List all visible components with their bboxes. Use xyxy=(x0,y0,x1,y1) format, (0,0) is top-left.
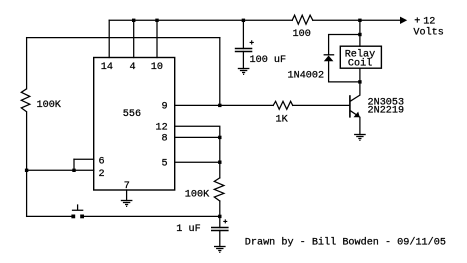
wire feedback vertical to pin9 xyxy=(219,38,221,106)
svg-text:4: 4 xyxy=(130,62,136,73)
wire feedback horizontal xyxy=(27,37,220,39)
transistor Q1 emitter diagonal xyxy=(350,111,359,117)
wire diode top branch xyxy=(329,35,360,55)
capacitor C2 1uF plates xyxy=(211,228,229,231)
svg-text:Volts: Volts xyxy=(413,27,443,39)
node diode top xyxy=(358,33,361,36)
node pin4 bus xyxy=(132,19,135,22)
wire 100uF cap top xyxy=(242,20,244,48)
svg-text:100 uF: 100 uF xyxy=(250,55,287,66)
wire pin6-pin2 step xyxy=(73,159,75,170)
svg-text:12: 12 xyxy=(423,17,435,28)
svg-text:Coil: Coil xyxy=(348,57,372,69)
svg-text:8: 8 xyxy=(162,134,168,145)
svg-text:100K: 100K xyxy=(37,100,62,111)
diode D1 1N4002 xyxy=(324,54,335,56)
svg-text:556: 556 xyxy=(123,109,141,120)
transistor Q1 collector diagonal xyxy=(350,95,360,101)
node diode bottom xyxy=(358,80,361,83)
ground 1uF xyxy=(214,247,226,253)
wire emitter to ground xyxy=(359,117,361,134)
wire relay bottom to collector xyxy=(359,68,361,95)
svg-text:12: 12 xyxy=(156,123,168,134)
push button S1 contacts xyxy=(71,215,75,219)
capacitor C1 plus sign xyxy=(250,40,254,44)
IC U1 556 box xyxy=(94,58,175,191)
wire base xyxy=(293,104,350,106)
ground pin7 xyxy=(121,201,133,207)
node pin9 feedback xyxy=(218,104,221,107)
svg-text:+: + xyxy=(414,17,420,28)
wire supply arrow line xyxy=(360,19,400,21)
wire pin6 xyxy=(74,158,94,160)
svg-text:1N4002: 1N4002 xyxy=(288,71,325,82)
wire bottom right of switch xyxy=(84,215,220,217)
svg-text:1K: 1K xyxy=(276,114,289,125)
wire pin4 vertical xyxy=(133,20,135,57)
svg-text:1 uF: 1 uF xyxy=(176,224,200,235)
svg-text:2: 2 xyxy=(99,169,105,180)
wire bottom left xyxy=(27,215,72,217)
resistor R3 100K right xyxy=(214,178,224,201)
resistor R2 100 ohm xyxy=(292,15,313,24)
svg-text:100: 100 xyxy=(293,29,311,40)
wire left loop vertical lower xyxy=(26,112,28,217)
svg-text:5: 5 xyxy=(162,158,168,169)
node pin2 left xyxy=(25,169,28,172)
svg-text:14: 14 xyxy=(101,62,113,73)
wire pin14 vertical xyxy=(108,20,110,57)
svg-text:2N2219: 2N2219 xyxy=(368,105,405,116)
wire pin2 xyxy=(27,169,94,171)
wire pin9 xyxy=(175,104,274,106)
transistor Q1 base bar xyxy=(349,95,351,117)
wire pin12 xyxy=(175,126,220,178)
wire pin7 stem xyxy=(126,190,128,201)
svg-text:10: 10 xyxy=(151,62,163,73)
push button S1 actuator xyxy=(72,204,83,210)
supply arrow head xyxy=(400,17,407,24)
wire pin5 xyxy=(175,161,220,163)
wire diode bottom branch xyxy=(329,61,360,82)
node 100uF bus xyxy=(242,19,245,22)
wire cap C2 to ground xyxy=(219,231,221,247)
node pin10 bus xyxy=(155,19,158,22)
svg-text:9: 9 xyxy=(162,101,168,112)
wire 100uF cap bottom xyxy=(242,52,244,69)
relay box xyxy=(340,46,381,68)
wire resistor to cap C2 xyxy=(219,201,221,228)
capacitor C1 100uF plates xyxy=(235,49,253,52)
wire supply to relay xyxy=(359,20,361,46)
wire pin8 xyxy=(175,136,220,138)
node pin5 xyxy=(218,161,221,164)
node supply bus xyxy=(358,19,361,22)
resistor R1 100K left xyxy=(21,89,30,112)
wire pin10 vertical xyxy=(156,20,158,57)
svg-text:Drawn by - Bill Bowden - 09/11: Drawn by - Bill Bowden - 09/11/05 xyxy=(245,237,446,249)
svg-text:100K: 100K xyxy=(185,189,210,200)
svg-text:6: 6 xyxy=(99,157,105,168)
node pin8 xyxy=(218,136,221,139)
capacitor C2 plus sign xyxy=(223,219,227,223)
wire top supply bus xyxy=(109,19,360,21)
node pin6 step xyxy=(72,169,75,172)
ground 100uF xyxy=(238,69,250,75)
wire left loop vertical upper xyxy=(26,38,28,89)
node bottom cap xyxy=(218,215,221,218)
ground emitter xyxy=(354,135,366,141)
svg-text:7: 7 xyxy=(124,181,130,192)
transistor Q1 emitter arrow xyxy=(354,112,360,118)
resistor R4 1K xyxy=(273,101,293,109)
